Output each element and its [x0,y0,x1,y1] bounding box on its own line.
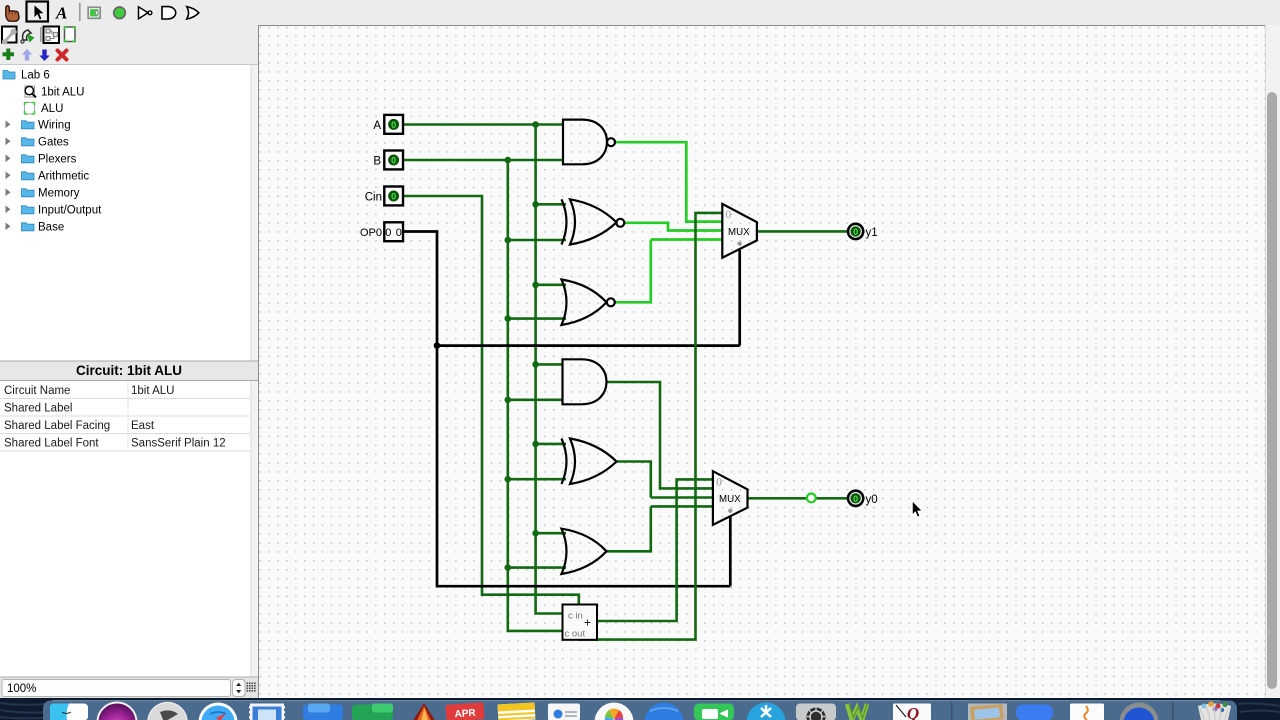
wire net B: vertical trunk x=507.8 down to adder [508,160,563,631]
multiplexer U7 (MUX for y1) [722,204,757,258]
svg-text:y1: y1 [866,227,878,239]
library folder Input/Output [6,205,103,217]
output pin tool [114,7,126,19]
simulation view button [21,30,35,43]
poke tool (hand) [6,6,19,22]
blue circle with X glyph [747,703,786,720]
svg-text:Q: Q [907,704,919,720]
svg-text:0: 0 [391,120,396,130]
project tree [3,69,102,233]
wire adder carry-out to MUX U7 in0 (dark) [579,213,723,640]
svg-text:Circuit: 1bit ALU: Circuit: 1bit ALU [76,363,182,378]
blue sphere with ring [1120,703,1159,720]
blue blob app [1016,705,1053,720]
wire net B: branch stubs to XNOR, NOR, AND, XOR, OR inputs [508,240,566,568]
wire XNOR output (bright) to MUX U7 in2 [624,223,723,231]
add circuit button (green plus) [3,49,15,61]
edit tool (selected, arrow in box) [27,2,49,22]
library folder Wiring [6,120,71,132]
wire net A: vertical trunk x=535.6 down to adder [536,125,563,614]
wire net B: horizontal from pin B to NAND input [403,159,563,162]
wire net A: horizontal from pin A to NAND input [403,123,563,126]
svg-text:East: East [131,420,155,432]
separator [951,702,953,720]
blue sphere (dictionary) [645,703,684,720]
svg-text:Wiring: Wiring [38,120,71,132]
svg-text:APR: APR [454,708,477,720]
svg-text:Shared Label Font: Shared Label Font [4,437,99,449]
APR calendar [445,702,484,720]
Safari [199,703,238,720]
node marker on y0 wire (bright ring) [807,494,816,503]
wire net A: branch stubs to XNOR, AND, XOR, OR inputs [536,204,566,533]
OR gate tool [187,7,199,19]
svg-text:A: A [55,4,67,23]
svg-text:MUX: MUX [728,227,750,238]
dock icons (top slivers) [50,701,1231,720]
AND gate tool [162,7,176,19]
Siri orb [98,703,137,720]
circuit 1bit ALU (current, magnifier icon) [25,86,84,98]
svg-text:ALU: ALU [41,103,63,115]
Launchpad / dark orb [148,703,187,720]
input pin B [384,151,403,170]
wire AND output to MUX U8 in1 (dark) [607,382,713,488]
svg-text:0: 0 [716,476,722,488]
Mail (stamp) [249,704,285,720]
multiplexer U8 (MUX for y0) [713,471,748,525]
junction net OP0 [434,342,441,349]
svg-text:MUX: MUX [719,494,741,505]
wire net OP0 (2-bit, black): from pin OP0 to MUX selects [403,232,740,587]
tree scrollbar strip [251,65,258,677]
W logo [847,704,867,720]
svg-text:OP0: OP0 [360,227,382,239]
NOT gate tool [139,7,152,19]
wrench (toolbox view) button [2,27,17,45]
separator [40,27,42,42]
wire adder sum output to MUX U8 in0 (dark) [597,479,713,621]
move down button (blue arrow) [39,50,49,62]
library folder Memory [6,188,80,200]
NOR gate U3 [562,280,615,326]
zoom bar [0,677,258,699]
folder Lab 6 [3,69,50,81]
blue docs icon [303,705,343,720]
Photos pinwheel [595,703,634,720]
svg-text:Memory: Memory [38,188,80,200]
input pin OP0 (2-bit, value 0 0) [384,222,403,241]
XOR gate U5 [562,439,617,485]
svg-text:c in: c in [568,611,583,622]
svg-text:0: 0 [391,192,396,202]
wire MUX U7 select stub (black) [738,249,741,346]
svg-text:Base: Base [38,222,64,234]
library folder Plexers [6,154,77,166]
XNOR gate U2 [562,199,625,244]
svg-text:Shared Label Facing: Shared Label Facing [4,420,110,432]
TeX doc with red glyph [893,704,931,720]
wire MUX U8 output to pin y0 [748,497,848,500]
svg-text:1bit ALU: 1bit ALU [131,385,174,397]
svg-text:Shared Label: Shared Label [4,402,72,414]
wallpaper [0,698,1280,720]
trash [1198,704,1231,720]
input pin Cin [384,187,403,206]
wire net Cin: from pin Cin right, down x=482, to adder carry-in stub [403,196,579,605]
mouse cursor [912,501,922,517]
AND gate U4 [563,359,607,404]
library folder Base [6,222,65,234]
input pin A [384,115,403,134]
appearance edit button [65,27,76,42]
svg-text:Cin: Cin [365,192,382,204]
MATLAB flame [413,703,435,720]
svg-text:0 0: 0 0 [385,227,402,239]
canvas border [259,26,1266,699]
wire MUX U7 output to pin y1 [757,230,847,233]
svg-text:0: 0 [391,156,396,166]
dock shelf [43,701,1237,720]
junctions net A [532,121,539,536]
move up button (lavender arrow) [22,49,32,61]
svg-text:Lab 6: Lab 6 [21,69,50,81]
circuit ALU [25,103,64,115]
yellow legal pad [498,703,536,720]
NAND gate U1 [563,120,615,165]
svg-text:Gates: Gates [38,137,69,149]
svg-text:A: A [373,120,381,132]
svg-text:y0: y0 [866,494,878,506]
attribute panel header: Circuit: 1bit ALU [0,361,258,382]
library folder Arithmetic [6,171,90,183]
svg-text:0: 0 [853,494,858,504]
tools strip background [0,25,258,64]
svg-text:+: + [584,616,591,630]
svg-text:1bit ALU: 1bit ALU [41,86,84,98]
Finder [50,704,88,720]
svg-text:SansSerif Plain 12: SansSerif Plain 12 [131,437,226,449]
separator 2 [1172,702,1174,720]
gear / steering wheel [796,704,836,720]
wire NOR output (bright) to MUX U7 in3 [614,240,722,303]
remove circuit button (red X) [58,51,67,60]
svg-text:Input/Output: Input/Output [38,205,102,217]
adder U9 (1-bit full adder subcircuit, c in / c out) [563,605,598,640]
svg-text:Plexers: Plexers [38,154,77,166]
wire OR output to MUX U8 in3 (dark) [607,506,713,551]
subcircuit layout button (selected) [44,27,60,44]
picture frame [968,704,1007,720]
library folder Gates [6,137,69,149]
white doc with blue dot [548,704,580,720]
svg-text:Arithmetic: Arithmetic [38,171,89,183]
Java / flame doc [1070,704,1104,720]
svg-text:c out: c out [565,629,586,640]
svg-text:0: 0 [725,209,731,221]
svg-text:B: B [373,156,381,168]
output pin y0 [848,491,863,506]
svg-text:0: 0 [853,227,858,237]
wire MUX U8 select stub (black) [729,516,732,587]
output pin y1 [848,224,863,239]
svg-text:Circuit Name: Circuit Name [4,385,70,397]
wire NAND output (bright, =1) to MUX U7 in1 [615,142,723,221]
input pin tool [88,7,100,18]
junctions net B [505,157,512,571]
attribute table [0,381,250,451]
FaceTime green [694,704,734,720]
OR gate U6 [562,529,607,574]
green sheets icon [352,705,393,720]
wire XOR output to MUX U8 in2 (dark) [617,462,713,498]
svg-text:100%: 100% [7,683,36,695]
separator [79,3,81,21]
wire net A: branch to NOR input [536,283,566,286]
